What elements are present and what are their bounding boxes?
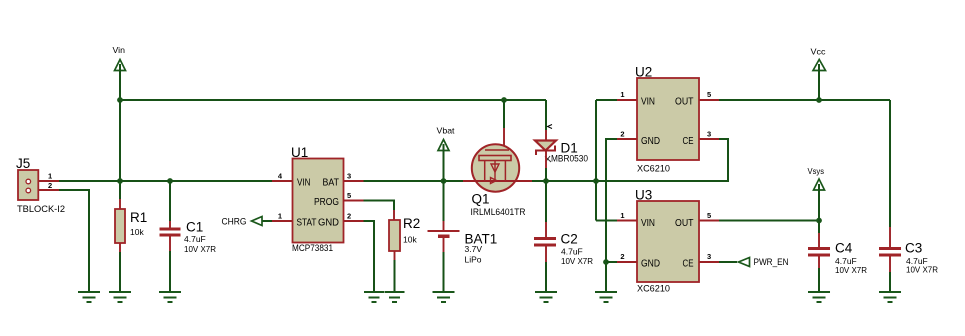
svg-text:IRLML6401TR: IRLML6401TR bbox=[471, 207, 526, 218]
power flag Vcc bbox=[811, 47, 827, 101]
ground (C4) bbox=[808, 292, 830, 302]
ground (U2/U3 GND) bbox=[595, 292, 617, 302]
power flag Vsys bbox=[808, 166, 825, 221]
U2 pin 3 stub bbox=[699, 138, 719, 140]
IC U3 XC6210 regulator bbox=[635, 188, 699, 295]
svg-text:Vin: Vin bbox=[113, 45, 126, 55]
terminal CHRG bbox=[222, 216, 273, 226]
svg-text:Vsys: Vsys bbox=[808, 166, 825, 176]
svg-text:C3: C3 bbox=[905, 241, 922, 256]
svg-text:MBR0530: MBR0530 bbox=[551, 154, 588, 165]
svg-text:10k: 10k bbox=[403, 235, 417, 245]
svg-text:2: 2 bbox=[48, 181, 52, 190]
svg-text:10V X7R: 10V X7R bbox=[906, 265, 938, 275]
U1 pin 1 STAT stub bbox=[272, 220, 293, 222]
junction D1 cathode / C2 bbox=[543, 178, 549, 184]
svg-text:5: 5 bbox=[707, 90, 711, 99]
U1 pin 3 BAT stub bbox=[344, 180, 364, 182]
U2 pin 5 stub bbox=[699, 99, 719, 101]
U1 pin 5 PROG stub bbox=[344, 200, 364, 202]
power flag Vbat bbox=[437, 126, 456, 182]
svg-text:3: 3 bbox=[707, 130, 711, 139]
svg-text:4.7uF: 4.7uF bbox=[561, 247, 583, 257]
svg-text:VIN: VIN bbox=[297, 178, 311, 189]
ground (R1) bbox=[109, 292, 131, 302]
svg-text:2: 2 bbox=[347, 212, 351, 221]
wire: J5.1 to U1.VIN bbox=[59, 180, 272, 182]
junction C1 top bbox=[167, 178, 173, 184]
svg-text:1: 1 bbox=[620, 211, 624, 220]
svg-text:3.7V: 3.7V bbox=[465, 244, 483, 254]
svg-text:10V X7R: 10V X7R bbox=[835, 265, 867, 275]
ground (U1.GND) bbox=[364, 292, 384, 302]
IC U1 MCP73831 charger bbox=[291, 145, 344, 254]
svg-text:5: 5 bbox=[347, 191, 351, 200]
svg-text:2: 2 bbox=[620, 130, 624, 139]
junction Vsys bbox=[816, 218, 822, 224]
ground (C1) bbox=[159, 292, 181, 302]
U1 pin 4 VIN stub bbox=[272, 180, 293, 182]
resistor R2 bbox=[389, 210, 420, 260]
svg-text:OUT: OUT bbox=[675, 97, 694, 108]
terminal PWR_EN bbox=[719, 257, 789, 267]
svg-text:R2: R2 bbox=[403, 216, 420, 231]
wire: U1.GND to ground bbox=[364, 221, 375, 292]
IC U2 XC6210 regulator bbox=[635, 65, 699, 175]
ground (J5.2) bbox=[78, 292, 100, 302]
svg-text:CE: CE bbox=[683, 136, 694, 147]
svg-text:C2: C2 bbox=[561, 232, 578, 247]
connector J5 TBLOCK-I2 bbox=[16, 156, 65, 215]
capacitor C1 bbox=[160, 181, 217, 254]
svg-text:Vcc: Vcc bbox=[811, 47, 827, 57]
svg-text:3: 3 bbox=[347, 172, 351, 181]
wire: U3.GND to ground riser bbox=[606, 261, 617, 263]
wire: system rail riser to U2.VIN and U3.VIN bbox=[595, 100, 597, 221]
resistor R1 bbox=[115, 199, 147, 252]
svg-text:5: 5 bbox=[707, 211, 711, 220]
capacitor C3 bbox=[879, 100, 938, 275]
battery BAT1 bbox=[428, 181, 498, 265]
svg-text:BAT: BAT bbox=[323, 178, 340, 189]
diode D1 MBR0530 bbox=[535, 125, 588, 165]
U2 pin 2 stub bbox=[617, 138, 637, 140]
svg-text:GND: GND bbox=[641, 136, 660, 147]
J5 pin 1 bbox=[38, 180, 59, 182]
junction at Q1 gate drop bbox=[501, 97, 507, 103]
wire: Vin rail down to D1 anode bbox=[545, 100, 547, 130]
svg-text:CHRG: CHRG bbox=[222, 216, 247, 226]
ground (R2) bbox=[385, 292, 405, 302]
wire: R2 to ground bbox=[394, 260, 396, 292]
U3 pin 3 stub bbox=[699, 261, 719, 263]
svg-text:3: 3 bbox=[707, 252, 711, 261]
svg-text:STAT: STAT bbox=[297, 218, 317, 229]
svg-text:R1: R1 bbox=[130, 210, 147, 225]
J5 pin 2 bbox=[38, 189, 59, 191]
wire: C3 to ground bbox=[889, 272, 891, 292]
svg-text:Vbat: Vbat bbox=[437, 126, 456, 136]
wire: U2.OUT to Vcc and C3 bbox=[719, 99, 890, 101]
junction Vin net / J5.1 bbox=[117, 178, 123, 184]
U1 pin 2 GND stub bbox=[344, 220, 364, 222]
svg-text:XC6210: XC6210 bbox=[637, 164, 670, 175]
svg-text:10k: 10k bbox=[130, 227, 144, 237]
wire: U1.BAT to Q1 and system rail to CE riser bbox=[364, 180, 464, 182]
wire: Vin vertical to J5 net and R1 bbox=[119, 100, 121, 199]
svg-text:TBLOCK-I2: TBLOCK-I2 bbox=[17, 204, 65, 215]
junction Vcc bbox=[816, 97, 822, 103]
wire: C2 to ground bbox=[545, 262, 547, 292]
junction at Vin flag bbox=[117, 97, 123, 103]
svg-text:PWR_EN: PWR_EN bbox=[754, 257, 789, 267]
svg-text:2: 2 bbox=[620, 252, 624, 261]
junction regulators VIN riser bbox=[593, 178, 599, 184]
svg-text:10V X7R: 10V X7R bbox=[561, 256, 593, 266]
ground (BAT1) bbox=[433, 292, 455, 302]
power flag Vin bbox=[113, 45, 126, 100]
svg-text:VIN: VIN bbox=[641, 218, 655, 229]
svg-text:CE: CE bbox=[683, 259, 694, 270]
svg-text:MCP73831: MCP73831 bbox=[292, 243, 333, 254]
svg-text:10V X7R: 10V X7R bbox=[184, 244, 216, 254]
svg-text:1: 1 bbox=[620, 90, 624, 99]
wire: U1.PROG to R2 bbox=[364, 201, 395, 211]
svg-text:4.7uF: 4.7uF bbox=[184, 234, 206, 244]
svg-text:PROG: PROG bbox=[314, 197, 339, 208]
svg-text:J5: J5 bbox=[16, 156, 30, 171]
wire: D1 cathode to rail bbox=[545, 151, 547, 169]
svg-text:LiPo: LiPo bbox=[465, 255, 482, 265]
svg-text:GND: GND bbox=[318, 218, 339, 229]
wire: U3.OUT to Vsys and C4 bbox=[719, 220, 819, 222]
wire: R1 to ground bbox=[119, 252, 121, 292]
wire: C1 to ground bbox=[169, 251, 171, 292]
transistor Q1 IRLML6401TR bbox=[471, 144, 526, 218]
svg-text:C1: C1 bbox=[186, 220, 203, 235]
junction U3.GND bbox=[603, 259, 609, 265]
wire: Vin rail top horizontal bbox=[120, 99, 546, 101]
svg-text:1: 1 bbox=[278, 212, 282, 221]
wire: C4 to ground bbox=[818, 268, 820, 292]
svg-text:GND: GND bbox=[641, 259, 660, 270]
junction BAT1 top bbox=[441, 178, 447, 184]
wire: J5.2 down to ground bbox=[59, 190, 89, 292]
capacitor C4 bbox=[808, 221, 867, 276]
svg-text:1: 1 bbox=[48, 172, 52, 181]
U3 pin 5 stub bbox=[699, 220, 719, 222]
svg-text:C4: C4 bbox=[835, 241, 853, 256]
capacitor C2 bbox=[534, 181, 593, 266]
svg-text:VIN: VIN bbox=[641, 97, 655, 108]
ground (C3) bbox=[879, 292, 901, 302]
U3 pin 2 stub bbox=[617, 261, 637, 263]
wire: BAT1 to ground bbox=[443, 252, 445, 292]
ground (C2) bbox=[535, 292, 557, 302]
svg-text:Q1: Q1 bbox=[472, 192, 490, 207]
svg-text:XC6210: XC6210 bbox=[637, 284, 670, 295]
wire: Q1 gate drop bbox=[503, 100, 505, 128]
wire: U2.GND down to ground bbox=[606, 139, 617, 292]
svg-text:OUT: OUT bbox=[675, 218, 694, 229]
